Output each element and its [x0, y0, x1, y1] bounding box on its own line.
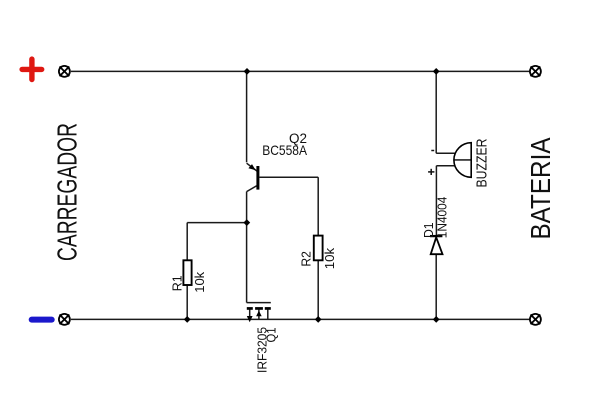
svg-text:R1: R1: [170, 275, 185, 291]
svg-text:1N4004: 1N4004: [434, 197, 449, 239]
svg-text:10k: 10k: [192, 271, 207, 292]
svg-text:10k: 10k: [322, 247, 337, 269]
svg-text:BUZZER: BUZZER: [475, 139, 491, 188]
svg-text:Q1: Q1: [264, 328, 279, 343]
svg-text:BC558A: BC558A: [262, 142, 307, 158]
svg-text:BATERIA: BATERIA: [525, 137, 556, 239]
svg-text:CARREGADOR: CARREGADOR: [51, 123, 82, 261]
svg-text:R2: R2: [299, 251, 314, 267]
